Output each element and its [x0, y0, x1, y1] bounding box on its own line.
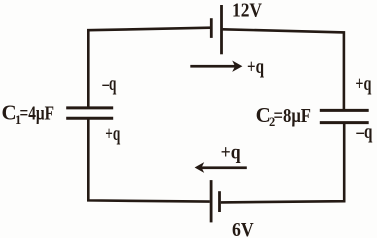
svg-text:=8μF: =8μF	[274, 105, 312, 127]
wire top-right segment	[223, 29, 344, 109]
capacitor C1 : bottom plate	[66, 117, 113, 120]
svg-text:12V: 12V	[232, 0, 262, 22]
current arrow (bottom, pointing left)	[195, 162, 247, 173]
capacitor C1 : top plate	[66, 106, 113, 109]
battery B2 6V : short negative plate	[218, 191, 221, 212]
svg-text:+q: +q	[221, 143, 241, 164]
capacitor C1 value label C1=4uF	[2, 101, 55, 127]
capacitor C2 : bottom plate	[320, 121, 369, 124]
svg-text:+q: +q	[355, 74, 371, 95]
svg-text:–q: –q	[102, 74, 117, 95]
svg-text:–q: –q	[356, 122, 373, 143]
wire top-left segment	[88, 28, 210, 107]
battery B2 6V : tall positive plate	[210, 180, 213, 222]
svg-text:6V: 6V	[232, 219, 254, 238]
svg-text:=4μF: =4μF	[20, 103, 55, 125]
capacitor C2 value label C2=8uF	[256, 103, 311, 129]
svg-text:+q: +q	[247, 57, 264, 78]
battery B1 12V : tall positive plate	[220, 5, 223, 54]
capacitor C2 : top plate	[320, 109, 369, 112]
wire bottom-right segment	[221, 124, 344, 203]
wire bottom-left segment	[88, 120, 210, 202]
svg-text:+q: +q	[105, 124, 120, 145]
current arrow (top, pointing right)	[190, 61, 242, 72]
battery B1 12V : short negative plate	[210, 18, 213, 38]
